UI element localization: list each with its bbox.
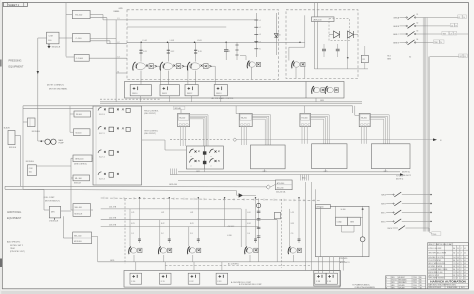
svg-text:S1: S1: [416, 14, 418, 16]
wire: [23, 188, 44, 190]
block SEL-100: [73, 204, 91, 217]
riser TB-200: [235, 106, 237, 114]
riser TB-100: [180, 109, 182, 113]
svg-text:MODULE: MODULE: [75, 213, 83, 215]
svg-text:10: 10: [457, 248, 459, 250]
svg-text:LOAD: LOAD: [337, 220, 343, 223]
svg-text:GRD-AB: GRD-AB: [174, 107, 181, 110]
svg-text:B-BUS: B-BUS: [4, 127, 11, 129]
svg-text:3/2/89: 3/2/89: [413, 280, 417, 282]
fuse module 30: [130, 273, 142, 284]
block W-100: [74, 111, 91, 117]
wire: [315, 98, 317, 102]
svg-text:(REL CIRCUIT): (REL CIRCUIT): [144, 133, 156, 135]
fuse F-103: [194, 49, 197, 51]
contactor CB-102: [160, 62, 163, 71]
svg-text:B2: B2: [453, 275, 455, 277]
rail lower: [5, 189, 237, 190]
svg-text:ADD SPECIFIC: ADD SPECIFIC: [7, 241, 21, 244]
wire: bus L1 inside panel: [127, 19, 256, 21]
svg-text:SEE SHT 2: SEE SHT 2: [402, 175, 411, 177]
bus: lower distribution B: [178, 174, 400, 176]
dashed column divider: [124, 199, 126, 264]
component cluster row 3: [98, 150, 119, 155]
wire feed: [315, 189, 317, 206]
svg-text:Z: Z: [461, 257, 462, 259]
svg-text:L-23: L-23: [190, 212, 193, 214]
contact group: [210, 149, 214, 153]
long wire to right with arrow: [237, 139, 433, 141]
svg-text:MODULE: MODULE: [26, 161, 35, 163]
wire return lead column 3: [212, 65, 216, 67]
svg-text:MODULE: MODULE: [32, 131, 41, 133]
wire module to bus: [169, 96, 171, 102]
svg-text:W-100: W-100: [76, 114, 83, 116]
relay column CR-205: [289, 209, 291, 246]
svg-text:F 39: F 39: [327, 281, 331, 283]
svg-text:L5: L5: [464, 56, 466, 58]
svg-text:d1: d1: [279, 35, 281, 37]
svg-text:DWG B-2214-E01: DWG B-2214-E01: [428, 287, 441, 289]
svg-text:L3: L3: [450, 33, 452, 35]
wire return lead column 2: [184, 65, 188, 67]
cabinet MCC-2: [312, 144, 347, 169]
SCR Q1: [334, 31, 340, 38]
wire: [44, 209, 49, 211]
module TB/PC: [28, 118, 36, 127]
bottom module enclosure right: [314, 271, 341, 287]
diode chain D-1: [275, 13, 277, 55]
terminal module enclosure row: [125, 82, 345, 99]
svg-text:K-13 T-3: K-13 T-3: [99, 179, 105, 181]
wire riser: [43, 189, 45, 210]
wire: [347, 38, 349, 69]
svg-text:F 33: F 33: [218, 281, 222, 283]
filter module FM-1: [130, 85, 151, 96]
wire L1 entry: [103, 19, 127, 21]
wire pair: generator leads: [313, 3, 315, 69]
wire module to bus: [220, 96, 222, 102]
svg-text:41: 41: [457, 263, 459, 265]
riser TB-400 (jog): [354, 106, 356, 116]
junction: [362, 208, 364, 210]
contactor CB-201: [129, 247, 131, 255]
dashed enclosure: ground panel: [127, 10, 279, 80]
svg-text:F 32: F 32: [190, 281, 194, 283]
contactor K-101: [312, 86, 314, 94]
contact box on wire D02: [274, 212, 280, 218]
svg-text:(GEN CONTROL): (GEN CONTROL): [74, 163, 87, 165]
svg-text:EQUIPMENT: EQUIPMENT: [7, 217, 22, 220]
svg-text:X: X: [461, 275, 462, 277]
svg-text:01: 01: [464, 257, 466, 259]
dashed tap line: [100, 98, 160, 100]
svg-text:C-100: C-100: [76, 38, 83, 40]
junction: [140, 42, 142, 44]
svg-text:S2 SPEC 10 WIRE: S2 SPEC 10 WIRE: [428, 266, 442, 268]
svg-text:GEN-100: GEN-100: [75, 159, 84, 161]
fuse module 31: [159, 273, 171, 284]
cable bundle TB-100 to CR cabinet: [190, 115, 209, 146]
wire riser: [106, 18, 108, 44]
long risers left of cabinet: [304, 182, 306, 271]
wire N entry: [116, 72, 127, 74]
wires cabinet to bottom modules: [318, 257, 320, 274]
svg-text:L1: L1: [118, 18, 120, 20]
svg-text:C-3: C-3: [190, 233, 193, 235]
cabinet MCC-3: [371, 144, 410, 169]
wire riser: [135, 262, 137, 271]
svg-text:K-21: K-21: [131, 223, 134, 225]
fuse F-101: [139, 49, 142, 51]
contactor CB-103: [187, 62, 190, 71]
svg-text:Z: Z: [461, 248, 462, 250]
svg-text:SW E: SW E: [387, 228, 392, 230]
rail GRD bottom: [98, 261, 345, 263]
contactor K-102: [325, 86, 327, 94]
wire: frame left riser: [22, 106, 24, 190]
feeds to W blocks: [69, 106, 71, 132]
svg-text:02: 02: [464, 272, 466, 274]
scanner shadow left: [0, 0, 1, 294]
svg-text:AC CONTROL: AC CONTROL: [228, 263, 239, 266]
wire return lead column 1: [157, 65, 161, 67]
wire control box to CR cabinet: [142, 139, 165, 141]
cabinet MCC-1: [251, 145, 286, 169]
svg-text:C/M: C/M: [29, 168, 33, 170]
svg-text:R1: R1: [363, 59, 365, 61]
svg-text:K-23: K-23: [190, 223, 193, 225]
svg-text:K-12 T-2: K-12 T-2: [99, 157, 105, 159]
svg-text:L3: L3: [118, 57, 120, 59]
svg-text:Z: Z: [461, 269, 462, 271]
svg-text:TB-300: TB-300: [301, 118, 307, 120]
wire to TB-100: [66, 14, 72, 16]
svg-text:FM-13: FM-13: [216, 93, 221, 95]
contactor CB-101: [133, 62, 136, 71]
svg-text:PANEL: PANEL: [114, 10, 120, 13]
svg-text:C-100 BRKT REV C WIRE: C-100 BRKT REV C WIRE: [428, 269, 447, 271]
svg-text:F 30: F 30: [131, 281, 135, 283]
svg-text:7/7/90: 7/7/90: [413, 277, 417, 279]
svg-text:C1: C1: [228, 51, 230, 53]
contact group: [190, 149, 194, 153]
feeder column 1: [140, 42, 142, 61]
svg-text:4 PNL C-100 FDR: 4 PNL C-100 FDR: [428, 248, 442, 250]
wire TB-100 out A: [90, 14, 103, 16]
wire: AVR bottom rail: [314, 68, 368, 70]
svg-text:MODULE: MODULE: [9, 147, 17, 149]
fuse module 38: [315, 273, 327, 284]
svg-text:GEN B: GEN B: [393, 26, 400, 28]
component cluster row 4: [98, 172, 119, 177]
svg-text:SW B: SW B: [381, 204, 386, 206]
wire module to bus: [191, 96, 193, 102]
contact group: [190, 159, 194, 163]
svg-text:K-22: K-22: [161, 223, 164, 225]
filter module FM-3: [185, 85, 198, 96]
svg-text:F-12: F-12: [171, 51, 175, 53]
junction: [225, 42, 227, 44]
arrowhead on drop wire: [37, 71, 39, 74]
contactor CB-104: [247, 61, 249, 69]
cable bundle into cabinet 2: [311, 115, 330, 144]
wire to C/M: [38, 37, 47, 39]
svg-text:20: 20: [457, 275, 459, 277]
svg-text:R. POMEROY ASSOC.: R. POMEROY ASSOC.: [353, 284, 371, 287]
feeder column 3: [195, 42, 197, 61]
wire: left drop: [37, 38, 39, 141]
svg-text:TB-200: TB-200: [241, 118, 247, 120]
svg-text:4TB GRD: 4TB GRD: [340, 258, 348, 260]
diamond junction: [266, 185, 270, 189]
svg-text:MAIN: MAIN: [59, 139, 64, 142]
svg-text:03: 03: [464, 263, 466, 265]
svg-text:SEL-300: SEL-300: [74, 235, 81, 237]
ground under M/S: [54, 218, 56, 220]
svg-text:B2: B2: [453, 266, 455, 268]
terminal chain TS-2: [236, 42, 238, 60]
fuse F-102: [167, 49, 170, 51]
fuse module 32: [188, 273, 200, 284]
svg-text:01: 01: [464, 269, 466, 271]
pin wires under TB-200: [241, 127, 243, 145]
wire riser: [221, 262, 223, 271]
svg-text:FDR 4 WIRE C-100: FDR 4 WIRE C-100: [428, 272, 442, 274]
edge smudge 1: [0, 60, 2, 67]
comb ground symbol mid: [300, 175, 302, 181]
wire TB-100 out B: [90, 17, 107, 19]
svg-text:MOTOR SELECT): MOTOR SELECT): [45, 200, 60, 202]
relay column CR-202: [159, 220, 161, 246]
wires to blocks: [70, 158, 72, 210]
contactor CB-203: [187, 247, 189, 255]
wire: [319, 206, 321, 256]
svg-text:10: 10: [457, 257, 459, 259]
svg-text:ATS-300: ATS-300: [277, 182, 284, 185]
breaker CB-104 feed: [240, 55, 246, 57]
svg-text:C-1: C-1: [131, 233, 134, 235]
svg-text:L1: L1: [458, 17, 460, 19]
svg-text:L-310: L-310: [227, 235, 232, 237]
svg-text:SCH REV C S2 CTRL: SCH REV C S2 CTRL: [428, 257, 444, 259]
junction: [167, 42, 169, 44]
riser below CR-100: [203, 169, 205, 172]
wire to C-100: [66, 37, 72, 39]
contact chain PL-1: [258, 199, 260, 262]
wire to ATS-300: [178, 179, 275, 181]
resistor R1: [361, 55, 368, 62]
scanner shadow bottom: [0, 291, 474, 294]
wire: bus L2 inside panel: [127, 26, 226, 28]
pin wires under TB-100: [180, 127, 182, 146]
svg-text:GRD-100: GRD-100: [169, 184, 177, 186]
svg-text:02: 02: [464, 253, 466, 255]
svg-text:C3: C3: [453, 272, 455, 274]
svg-text:7/7/90: 7/7/90: [413, 287, 417, 289]
wire L2 entry: [107, 43, 127, 45]
svg-text:C-1000: C-1000: [76, 58, 84, 60]
wire: [276, 220, 278, 262]
revision table: [386, 276, 426, 289]
cable bundle into cabinet 1: [252, 115, 270, 145]
svg-text:TB4: TB4: [434, 42, 437, 44]
wire C/M to riser: [59, 37, 66, 39]
sheet tab box: [3, 3, 27, 7]
svg-text:K-11 T-1: K-11 T-1: [99, 133, 105, 135]
svg-text:41: 41: [457, 272, 459, 274]
wire C-100 out A: [90, 38, 116, 40]
svg-text:01: 01: [464, 248, 466, 250]
svg-text:L2: L2: [118, 42, 120, 44]
svg-text:X: X: [461, 263, 462, 265]
relay column CR-204: [245, 209, 247, 246]
svg-text:TB-6: TB-6: [432, 234, 436, 236]
feeder column 2: [167, 42, 169, 61]
svg-text:(NOTE: CONNECT): (NOTE: CONNECT): [47, 84, 64, 86]
wire module to bus: [140, 96, 142, 102]
svg-text:(NOTE 5): (NOTE 5): [396, 178, 404, 180]
svg-text:PRESSING: PRESSING: [9, 60, 22, 63]
pump motors M1 M2: [40, 140, 42, 142]
bus: horizontal distribution B: [100, 102, 362, 104]
wire contactor to module: [140, 71, 142, 85]
bus: horizontal distribution A: [100, 101, 362, 103]
svg-text:F 38: F 38: [316, 281, 320, 283]
svg-text:PUMP: PUMP: [59, 143, 65, 145]
terminal chain TS-1: [255, 13, 257, 57]
svg-text:GEN N: GEN N: [393, 43, 400, 45]
svg-text:L-25: L-25: [291, 212, 294, 214]
terminal block TB-300: [300, 113, 311, 126]
svg-text:TB-100: TB-100: [179, 118, 185, 120]
dashed lower tap: [165, 264, 310, 266]
svg-text:100: 100: [29, 172, 32, 174]
control module cabinet CTL-100: [93, 106, 142, 185]
svg-text:L1-03: L1-03: [197, 40, 201, 42]
wire C/M to riser: [36, 165, 71, 167]
svg-text:B: B: [386, 287, 387, 289]
svg-text:L-24: L-24: [247, 212, 250, 214]
pin wires under TB-400: [361, 127, 363, 144]
wire riser to TB-400: [352, 106, 354, 113]
filter module FM-4: [214, 85, 227, 96]
wire: neutral bus inside panel: [127, 41, 300, 43]
capacitor C-110: [225, 42, 227, 49]
svg-text:GEN A: GEN A: [393, 17, 400, 20]
center bus of CR-100: [204, 146, 206, 169]
title block table: [428, 243, 469, 289]
ground symbol below C/M: [48, 44, 50, 46]
svg-text:7/7/90: 7/7/90: [413, 282, 417, 284]
fuse module 39: [326, 273, 338, 284]
svg-text:ATS-100: ATS-100: [317, 206, 324, 209]
svg-text:D4: D4: [453, 257, 455, 259]
wire: [23, 107, 93, 109]
svg-text:K-25: K-25: [291, 223, 294, 225]
svg-text:MODULE: MODULE: [74, 241, 82, 243]
svg-text:01: 01: [464, 260, 466, 262]
shield dashed bus: [101, 198, 320, 200]
contactor CB-202: [158, 247, 160, 255]
contact group: [210, 159, 214, 163]
wire: [15, 135, 21, 137]
svg-text:GRD: GRD: [119, 8, 124, 10]
wire: [362, 206, 364, 237]
row 3 labels: [423, 33, 442, 35]
comb ground symbol left: [170, 174, 178, 176]
regulator AVR-100: [312, 17, 335, 22]
svg-text:REV: REV: [392, 282, 395, 284]
block W-200: [74, 129, 91, 136]
svg-text:D01 4TB: D01 4TB: [109, 207, 117, 209]
bottom terminal enclosure: [124, 271, 340, 288]
bus: lower distribution A: [178, 171, 400, 173]
svg-text:SEL-100: SEL-100: [75, 207, 82, 209]
svg-text:B-2214 SHOWN FULL COMP: B-2214 SHOWN FULL COMP: [239, 284, 262, 286]
svg-text:400-240 CA: 400-240 CA: [276, 190, 286, 193]
svg-text:F-13: F-13: [198, 51, 202, 53]
capacitor C2: [322, 48, 326, 50]
pin wires under TB-300: [301, 127, 303, 144]
svg-text:GEN C: GEN C: [393, 34, 400, 36]
svg-text:X: X: [461, 253, 462, 255]
label box ATS-100: [316, 204, 331, 208]
svg-text:X: X: [461, 260, 462, 262]
component cluster row 2: [98, 126, 119, 131]
svg-text:L-21: L-21: [131, 212, 134, 214]
svg-text:S3: S3: [416, 30, 418, 32]
svg-text:MODULE: MODULE: [74, 182, 81, 184]
divider before contactor cells: [305, 82, 307, 99]
svg-text:TB 4 CTRL SPEC: TB 4 CTRL SPEC: [428, 260, 442, 262]
svg-text:AVR-100: AVR-100: [314, 18, 323, 21]
svg-text:(P/N SPEC LIST): (P/N SPEC LIST): [10, 251, 25, 253]
block TB-100: [72, 10, 90, 18]
svg-text:C-4: C-4: [247, 233, 250, 235]
svg-text:+24 VDC: +24 VDC: [227, 226, 235, 228]
svg-text:G1: G1: [459, 56, 461, 58]
dashed divider right: [281, 199, 283, 268]
block ML-100: [73, 175, 90, 181]
SCR Q2: [348, 31, 354, 38]
wire: [334, 206, 336, 217]
breaker CB-105: [300, 41, 305, 43]
svg-text:03: 03: [464, 266, 466, 268]
rail upper: [5, 185, 266, 188]
wire to CB-204: [240, 209, 242, 247]
terminal block TB-100: [178, 113, 190, 126]
svg-text:FIELD CONTROL: FIELD CONTROL: [144, 110, 158, 112]
wire: [348, 216, 363, 218]
svg-text:41: 41: [457, 260, 459, 262]
contactor CB-204: [245, 247, 247, 255]
filter module FM-2: [160, 85, 179, 96]
svg-text:TB3: TB3: [443, 33, 446, 35]
wire riser: [193, 262, 195, 271]
svg-text:ML-100: ML-100: [75, 178, 83, 180]
svg-text:TB-400: TB-400: [361, 118, 367, 120]
svg-text:ADDITIONAL: ADDITIONAL: [7, 211, 22, 214]
terminal block TB-200: [239, 113, 252, 126]
svg-text:400-240: 400-240: [277, 188, 284, 190]
svg-text:L2: L2: [451, 25, 453, 27]
svg-text:10: 10: [457, 253, 459, 255]
svg-text:ITEM: ITEM: [10, 248, 15, 250]
stepped wire + arrow: [236, 191, 238, 196]
cable bundle right riser: [422, 18, 424, 232]
svg-text:TEST CONTROL: TEST CONTROL: [144, 130, 158, 132]
